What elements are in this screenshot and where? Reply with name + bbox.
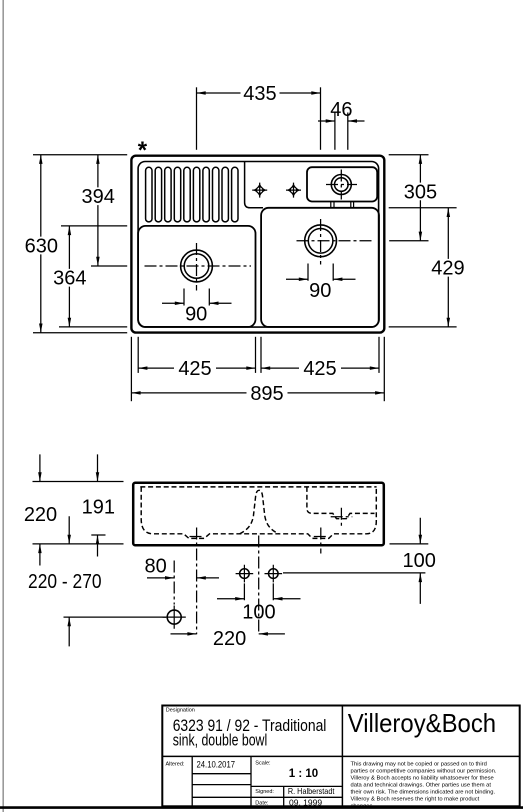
hidden bowl contour [141, 487, 376, 539]
dimension 425 right [261, 367, 379, 369]
svg-text:630: 630 [25, 235, 58, 257]
left bowl drain [181, 250, 213, 282]
svg-text:435: 435 [243, 83, 276, 105]
front view centerlines [174, 508, 352, 635]
optional tap hole symbol 1 [252, 183, 267, 198]
right bowl drain [305, 225, 337, 257]
svg-text:394: 394 [82, 186, 115, 208]
svg-text:24.10.2017: 24.10.2017 [197, 760, 236, 770]
dimension 895 [131, 392, 384, 394]
svg-text:100: 100 [242, 602, 275, 624]
svg-text:425: 425 [303, 358, 336, 380]
svg-text:220 - 270: 220 - 270 [28, 571, 102, 593]
dimension 435 [197, 92, 321, 94]
svg-text:305: 305 [404, 181, 437, 203]
svg-text:80: 80 [144, 555, 166, 577]
centerlines of drains and faucet hole [145, 170, 374, 291]
hole extension verticals [244, 583, 273, 600]
platform tab 2 [351, 202, 354, 208]
svg-text:100: 100 [403, 550, 436, 572]
dimension 305 [419, 155, 421, 241]
extension lines right [389, 155, 457, 327]
logo cell divider [341, 706, 343, 807]
svg-text:Scale:: Scale: [255, 761, 271, 767]
svg-text:Villeroy&Boch: Villeroy&Boch [348, 708, 496, 738]
date column rows [192, 774, 251, 785]
page left margin line [2, 0, 4, 812]
dimension 220 - 270 [68, 516, 70, 646]
svg-text:This drawing may not be copied: This drawing may not be copied or passed… [351, 762, 487, 768]
svg-text:425: 425 [178, 358, 211, 380]
svg-text:895: 895 [250, 383, 283, 405]
dimension 100 holes [217, 598, 301, 600]
page bottom border [0, 806, 523, 809]
extension lines left [33, 155, 127, 333]
row divider [162, 755, 519, 757]
svg-text:*: * [138, 137, 148, 164]
hidden divider peak [240, 490, 279, 534]
drainer ribs [146, 167, 238, 222]
dimension 90 left drain [162, 289, 232, 306]
mounting hole right [265, 565, 283, 583]
svg-text:191: 191 [82, 497, 115, 519]
svg-text:their own risk. The dimensions: their own risk. The dimensions indicated… [351, 790, 496, 796]
platform tab 1 [331, 202, 334, 208]
dimension 90 right drain [286, 264, 356, 281]
dimension 191 [97, 454, 99, 556]
extension lines front view [33, 482, 429, 618]
dimension 364 [68, 226, 70, 327]
deck inner line [138, 162, 379, 328]
extension lines top [197, 87, 348, 150]
front view outer outline [133, 483, 384, 545]
svg-text:90: 90 [309, 280, 331, 302]
svg-text:46: 46 [330, 99, 352, 121]
hidden rim top line [140, 486, 376, 488]
hidden faucet deck contour [307, 487, 375, 519]
svg-text:Villeroy & Boch accepts no lia: Villeroy & Boch accepts no liability wha… [351, 776, 494, 782]
dimension 220 bottom [171, 633, 285, 635]
signed label divider [283, 786, 285, 806]
svg-text:220: 220 [24, 504, 57, 526]
svg-text:Date:: Date: [255, 801, 269, 807]
extension lines bottom [131, 337, 384, 401]
svg-text:parties or competitive compani: parties or competitive companies without… [351, 769, 497, 775]
svg-text:changes.: changes. [351, 804, 375, 810]
mounting hole left [163, 606, 186, 629]
optional tap hole symbol 2 [286, 183, 301, 198]
right bowl [261, 208, 379, 327]
dimension 429 [447, 208, 449, 327]
svg-text:Villeroy & Boch reserves the r: Villeroy & Boch reserves the right to ma… [351, 797, 480, 803]
svg-text:R. Halberstadt: R. Halberstadt [288, 786, 335, 796]
svg-text:1 : 10: 1 : 10 [289, 768, 318, 780]
mounting hole middle [236, 565, 254, 583]
dimension 100 right [419, 518, 421, 604]
svg-text:90: 90 [185, 304, 207, 326]
dimension 46 [318, 120, 365, 122]
svg-text:data and technical drawings. O: data and technical drawings. Other parti… [351, 783, 492, 789]
dimension 630 [40, 155, 42, 333]
dimension 80 [147, 577, 219, 579]
svg-text:09. 1999: 09. 1999 [289, 797, 322, 807]
faucet hole [331, 175, 351, 195]
sink outer rim outline [131, 156, 384, 333]
dimension 220 height [39, 454, 41, 565]
svg-text:220: 220 [213, 628, 246, 650]
svg-text:sink, double bowl: sink, double bowl [173, 731, 268, 749]
altered cell divider [191, 756, 193, 806]
dimension 425 left [138, 367, 255, 369]
svg-text:429: 429 [431, 258, 464, 280]
svg-text:Signed:: Signed: [255, 789, 274, 795]
legal text [351, 762, 497, 810]
scale column rows [192, 786, 342, 797]
svg-text:Designation: Designation [166, 708, 195, 714]
faucet platform [307, 167, 377, 201]
date column divider [250, 756, 252, 806]
svg-text:Altered:: Altered: [166, 761, 185, 767]
title block frame [162, 706, 519, 807]
dimension 394 [97, 155, 99, 266]
drainer/deck separator L-line [245, 162, 263, 208]
svg-text:364: 364 [53, 268, 86, 290]
left bowl [138, 226, 255, 327]
